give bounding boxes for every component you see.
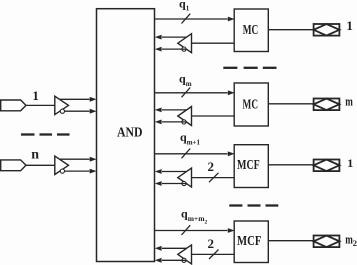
wire MC feedback to buffer [192,42,235,44]
feedback buffer amplifier (MC row) [178,34,192,53]
feedback buffer amplifier (MCF row) [178,168,192,187]
svg-text:MCF: MCF [237,234,261,249]
svg-text:qm+m2: qm+m2 [181,207,207,226]
indicator lamp (output m2) [314,236,340,248]
wire MC to indicator [268,29,313,31]
bus qm+m2 from AND to MCF [155,225,235,235]
wire feedback inverted output to AND [155,120,186,125]
wire buffer direct output to AND [60,157,97,162]
indicator lamp (output m) [314,99,340,111]
wire MC to indicator [268,103,313,105]
svg-text:MC: MC [243,97,259,112]
wire MCF feedback to buffer [192,250,235,259]
svg-text:qm: qm [179,72,192,88]
input connector (input n) [1,160,26,171]
svg-text:qm+1: qm+1 [180,130,201,146]
input connector (input 1) [1,100,26,111]
wire buffer inverted output to AND [65,109,97,114]
svg-text:1: 1 [346,18,353,33]
block AND U1 [97,9,155,262]
block MC [234,83,268,126]
feedback buffer amplifier (MCF row) [178,245,192,264]
svg-text:2: 2 [208,159,215,174]
ellipsis (more inputs) [21,133,70,135]
indicator lamp (output 1) [314,160,340,172]
svg-text:AND: AND [117,125,143,140]
wire input n to buffer [26,164,55,166]
svg-text:q1: q1 [179,0,190,13]
svg-text:m: m [345,94,353,108]
svg-text:n: n [31,147,39,162]
indicator lamp (output 1) [314,24,340,36]
wire feedback inverted output to AND [155,47,186,52]
buffer amplifier (input 1) [55,96,69,114]
bus qm+1 from AND to MCF [155,149,235,159]
wire input 1 to buffer [26,104,55,106]
wire buffer direct output to AND [60,97,97,102]
ellipsis (more MC channels) [223,67,276,69]
wire MCF feedback to buffer [192,173,235,182]
wire feedback direct output to AND [155,108,187,113]
svg-text:MCF: MCF [237,158,260,173]
ellipsis (more MCF channels) [229,204,278,206]
svg-text:2: 2 [208,236,215,251]
wire MCF to indicator [268,164,313,166]
block MCF [234,145,268,188]
svg-text:MC: MC [243,22,259,37]
wire MC feedback to buffer [192,115,235,117]
wire feedback direct output to AND [155,169,187,174]
wire feedback inverted output to AND [155,258,186,263]
wire MCF to indicator [268,240,313,242]
block MC [234,9,268,52]
wire feedback inverted output to AND [155,181,186,186]
svg-text:2: 2 [353,238,357,248]
bus qm from AND to MC [155,88,235,98]
svg-text:1: 1 [347,156,353,170]
wire feedback direct output to AND [155,35,187,40]
bus q1 from AND to MC [155,14,235,24]
feedback buffer amplifier (MC row) [178,107,192,126]
svg-text:1: 1 [32,88,39,103]
wire feedback direct output to AND [155,246,187,251]
block MCF [234,221,268,263]
wire buffer inverted output to AND [65,169,97,174]
buffer amplifier (input n) [55,156,69,174]
